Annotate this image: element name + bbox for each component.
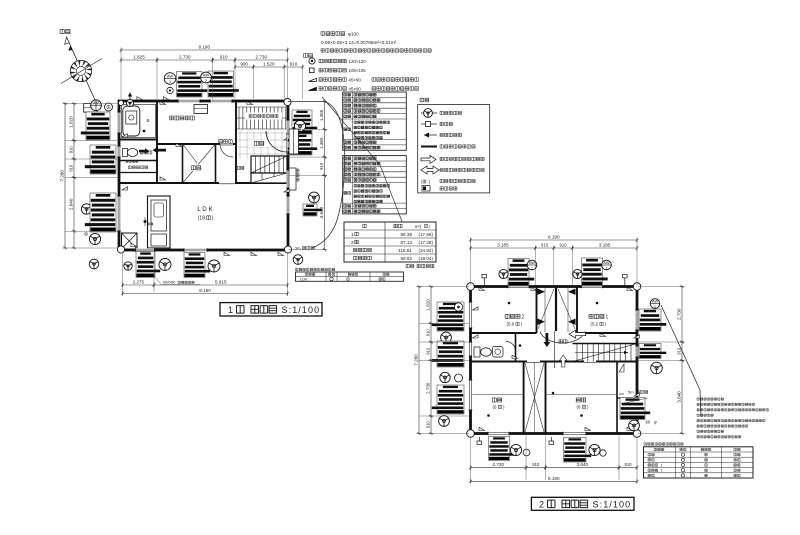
floor1 dim top overall 8.190 — [120, 45, 289, 53]
fire row kodomo1 — [648, 463, 740, 467]
floor2 corridor door arch — [540, 332, 585, 343]
floor1 right fan bottom-corner — [293, 255, 303, 265]
svg-text:(34.94): (34.94) — [418, 248, 433, 253]
floor2 dim right segments — [676, 285, 684, 343]
floor2 corridor down arrow — [544, 333, 551, 347]
floor1 window bottom 2 — [184, 248, 207, 252]
floor1 brace markers — [122, 101, 290, 255]
svg-text:AW: AW — [93, 101, 99, 105]
floor1 left tag stack C — [85, 193, 116, 232]
floor1 corner post top-right — [284, 98, 291, 105]
area table row building area — [354, 256, 434, 261]
floor2 shelf line right room — [546, 394, 618, 396]
svg-text:2.640: 2.640 — [68, 198, 73, 210]
fire row shinshitsu — [648, 453, 740, 456]
floor1 dim top row3 — [234, 62, 255, 70]
fire row kodomo2 — [648, 469, 740, 473]
svg-text:910: 910 — [532, 462, 540, 467]
floor2 top tag stack 1 — [508, 259, 534, 287]
svg-text:45×90: 45×90 — [349, 77, 362, 82]
svg-text:8.190: 8.190 — [548, 235, 560, 240]
floor2 corridor top wall right — [577, 332, 637, 334]
fire row roka — [648, 474, 740, 477]
svg-text:2.730: 2.730 — [676, 308, 681, 320]
floor1 small circle yu — [105, 103, 113, 111]
floor2 right fan mid — [651, 362, 663, 374]
svg-text:φ100: φ100 — [348, 31, 359, 36]
floor1 tri marker above top wall 1 — [137, 97, 143, 100]
floor1 right tag stack top — [292, 110, 317, 134]
floor2 stairs — [573, 344, 638, 362]
floor1 washer box — [122, 233, 138, 249]
svg-text:(6: (6 — [493, 405, 497, 410]
fire row yoshitsu — [648, 458, 740, 461]
floor2 corridor arrow — [569, 330, 586, 338]
svg-text:910: 910 — [676, 347, 681, 355]
floor1 bottom tag stack 2 — [184, 253, 210, 278]
svg-text:2: 2 — [539, 499, 544, 509]
floor2 door gap mid wall 1 — [527, 360, 540, 364]
floor2 window right 2 — [635, 346, 638, 357]
north arrow line — [67, 37, 96, 100]
floor1 entrance porch step — [289, 129, 299, 154]
svg-text:B: B — [147, 118, 150, 123]
floor1 wall hall-entrance — [235, 101, 237, 183]
svg-text:8.190: 8.190 — [548, 476, 560, 481]
leader line to tables — [322, 97, 409, 254]
svg-text:3.640: 3.640 — [577, 462, 589, 467]
floor1 washroom label senmen-datsuiishitsu — [170, 116, 195, 120]
floor2 bottom inlet symbol 2 — [549, 441, 554, 444]
svg-text:(5.2: (5.2 — [591, 322, 599, 327]
svg-text:910: 910 — [425, 329, 430, 337]
svg-text:7.280: 7.280 — [59, 170, 64, 182]
floor1 fan above window1 — [164, 73, 176, 85]
floor1 pantry note — [126, 160, 138, 162]
floor2 top tag stack 2 — [582, 258, 608, 286]
floor1 right fan top — [294, 120, 305, 131]
floor1 dim left segments — [68, 102, 76, 142]
vent legend always row — [422, 186, 430, 192]
floor1 window right kitchen-side — [286, 120, 290, 134]
vent spec table floor1 — [343, 92, 407, 150]
floor1 left small circles B — [81, 204, 91, 214]
floor2 door gap mid wall 2 — [584, 360, 596, 364]
floor1 shoes closet label — [245, 113, 282, 120]
legend item toshi-bashira — [309, 58, 315, 64]
floor2 dim bottom extension lines — [471, 436, 638, 481]
svg-text:59.62: 59.62 — [401, 256, 413, 261]
floor1 bath shower dot — [143, 130, 146, 133]
svg-text:AW: AW — [603, 260, 610, 265]
floor1 right stack mid — [287, 134, 317, 155]
svg-text:φ: φ — [654, 420, 657, 425]
floor1 window bottom 1 — [136, 248, 155, 252]
floor1 bottom fan 1 — [159, 259, 171, 271]
fire alarm table floor2 — [644, 447, 754, 478]
floor2 window right 1 — [635, 310, 639, 330]
floor1 right fan lower — [309, 192, 320, 203]
floor2 dim top extension lines — [471, 240, 638, 285]
compass cross line — [61, 59, 102, 84]
floor1 kitchen dot — [144, 220, 147, 223]
svg-text:58.38: 58.38 — [401, 232, 413, 237]
floor1 bottom small fan left — [124, 262, 132, 270]
floor2 window left 2 — [469, 342, 472, 356]
floor2 left fan 1 — [441, 332, 452, 343]
floor1 hall door arc — [220, 144, 233, 157]
floor1 toilet label — [140, 151, 152, 154]
floor2 corner posts — [467, 283, 475, 291]
floor1 toilet fixture — [123, 149, 128, 157]
floor2 shelf line left room — [472, 394, 524, 396]
svg-text:1: 1 — [228, 305, 233, 315]
floor2 room label yoshitsu6 — [492, 398, 502, 402]
svg-text:5.915: 5.915 — [215, 280, 227, 285]
svg-text:910: 910 — [220, 55, 228, 60]
floor1 katteguchi step — [289, 168, 296, 190]
floor2 dim bottom segments — [469, 462, 527, 470]
floor2 dim left overall 7.280 — [413, 285, 421, 435]
svg-text:S:1/100: S:1/100 — [593, 499, 632, 509]
area table header — [363, 224, 367, 228]
floor1 wall pantry bottom — [119, 172, 157, 174]
floor1 tag stack top 2 — [208, 71, 239, 97]
floor2 right tag stack 2 — [639, 344, 666, 359]
floor2 brace markers — [473, 287, 640, 430]
floor1 wall washroom bottom — [157, 143, 236, 145]
floor1 outer walls — [119, 101, 288, 250]
floor1 fan above window2 — [201, 72, 212, 83]
legend title hanrei — [304, 54, 313, 58]
floor2 outer walls — [471, 287, 638, 434]
floor1 closet monoire walls — [182, 144, 184, 183]
floor1 corner post bottom-right — [284, 246, 291, 253]
floor1 washroom arrow — [153, 147, 167, 154]
floor2 stairs top wall — [573, 343, 638, 345]
svg-text:910: 910 — [425, 347, 430, 355]
floor2 left fan 2 — [440, 372, 450, 382]
floor2 right tag stack 3 — [620, 398, 650, 420]
svg-text:L D K: L D K — [197, 206, 213, 213]
svg-text:60: 60 — [646, 420, 651, 425]
floor1 bottom fan 2 — [208, 260, 220, 272]
svg-text:m²(: m²( — [415, 224, 422, 229]
floor2 top AW circle 2 — [602, 260, 612, 271]
area table row total floor area — [354, 248, 434, 253]
svg-text:AW: AW — [529, 260, 536, 265]
svg-text:5m: 5m — [628, 390, 634, 395]
svg-text:3.185: 3.185 — [497, 243, 509, 248]
floor2 corridor top wall left — [471, 332, 537, 334]
floor1 window left bath — [117, 112, 121, 133]
floor1 dim bottom row1 — [121, 280, 155, 288]
floor1 wall bath-washroom — [156, 101, 158, 183]
floor2 bottom inlet symbol 1 — [477, 441, 482, 444]
svg-text:910: 910 — [560, 243, 568, 248]
legend item kuda-bashira — [310, 68, 315, 73]
floor2 window top 1 — [508, 285, 529, 289]
svg-text:910: 910 — [68, 164, 73, 172]
floor1 water heater — [84, 104, 97, 113]
svg-text:2.730: 2.730 — [493, 462, 505, 467]
floor1 dim right segments — [319, 100, 327, 131]
floor1 wall toilet bottom — [119, 160, 157, 162]
floor2 dim top overall 8.190 — [469, 235, 638, 243]
svg-text:7.280: 7.280 — [413, 354, 418, 366]
floor2 left tag stack 1 — [432, 302, 464, 331]
compass rose — [70, 60, 91, 81]
floor2 right closet door marks — [619, 364, 624, 372]
floor1 dim top row2 — [120, 55, 159, 63]
floor1 door gap hall-LDK — [219, 181, 235, 185]
floor2 closet strip bottom walls — [523, 362, 525, 434]
floor1 closet monoire label — [186, 165, 206, 172]
floor1 bottom tag stack 1 — [136, 252, 160, 278]
north arrowhead — [65, 37, 70, 44]
floor1 toilet arrow — [139, 148, 149, 154]
floor1 right stack lower — [303, 204, 322, 216]
fire alarm table floor1 — [296, 272, 404, 281]
legend item sujikai double — [309, 87, 317, 90]
legend item sujikai single — [309, 78, 317, 81]
floor2 left tag stack 2 — [432, 341, 464, 367]
floor2 closet brace triangles — [538, 289, 546, 295]
floor1 wall LDK top — [119, 182, 288, 184]
svg-text:3.640: 3.640 — [676, 391, 681, 403]
floor1 entrance label genkan — [248, 140, 270, 147]
note SUS hood — [321, 49, 431, 52]
floor2 window bottom 2 — [563, 432, 586, 436]
svg-text:2.275: 2.275 — [133, 280, 145, 285]
floor1 closet monoire diagonal — [184, 145, 215, 182]
floor1 window right LDK — [286, 196, 290, 214]
floor2 room label yoshitsu8 — [576, 398, 585, 402]
area table row 2F area — [351, 240, 433, 245]
svg-text:2.730: 2.730 — [256, 55, 268, 60]
floor2 fire line — [661, 305, 701, 417]
vent legend title — [420, 98, 429, 102]
svg-text:1: 1 — [606, 314, 609, 320]
svg-text:120×120: 120×120 — [349, 59, 367, 64]
svg-text:(18: (18 — [198, 216, 205, 222]
floor2 bottom fans 2 — [589, 444, 600, 455]
svg-text:910: 910 — [541, 243, 549, 248]
floor2 top inlet symbol 2 — [623, 275, 628, 278]
vent legend duct row — [421, 146, 437, 148]
svg-text:8.190: 8.190 — [199, 45, 211, 50]
svg-text:1.520: 1.520 — [263, 62, 275, 67]
floor1 bottom small fan far-left — [89, 259, 99, 269]
svg-text:AW: AW — [167, 73, 174, 78]
floor2 room dots — [487, 414, 490, 417]
floor2 dim left extension lines — [419, 287, 469, 434]
svg-text:1.365: 1.365 — [319, 137, 324, 149]
floor2 corridor label — [559, 340, 567, 344]
title box floor1 — [220, 303, 322, 316]
floor2 left small circle 1 — [454, 303, 462, 311]
floor1 fan top-left — [91, 100, 102, 111]
floor2 room label kodomo1 — [589, 314, 604, 318]
svg-text:2: 2 — [351, 240, 354, 245]
balcony notes block — [697, 398, 768, 438]
vent spec table floor2 — [343, 156, 407, 214]
svg-text:(17.66): (17.66) — [418, 232, 433, 237]
floor2 window left 3 — [469, 380, 473, 410]
floor2 top fan 2 — [573, 269, 582, 278]
floor2 right closet wall — [616, 362, 618, 434]
fire alarm table floor1 title — [296, 268, 335, 271]
vent legend box — [418, 105, 490, 193]
floor1 door gap washroom-hall — [220, 142, 233, 146]
floor1 corner post bottom-left — [117, 246, 124, 253]
svg-text:(5.8: (5.8 — [507, 322, 515, 327]
floor2 window bottom 1 — [488, 432, 509, 436]
floor1 dim top extension lines — [121, 50, 303, 99]
floor2 dim top segments — [469, 243, 537, 251]
svg-text:45×90: 45×90 — [349, 86, 362, 91]
svg-text:910: 910 — [319, 162, 324, 170]
floor1 bath unit tub — [122, 105, 156, 138]
svg-text:AW: AW — [203, 72, 210, 77]
floor2 dim bottom overall 8.190 — [469, 476, 638, 484]
floor2 small up arrow — [560, 355, 567, 367]
floor2 bottom tag stack 1 — [489, 437, 515, 461]
svg-text:105×105: 105×105 — [349, 68, 367, 73]
svg-text:(17.28): (17.28) — [418, 240, 433, 245]
floor2 window right 3 — [635, 402, 638, 420]
floor2 top fan 1 — [499, 269, 508, 278]
floor2 dim right extension lines — [638, 287, 682, 434]
floor2 left small circle 2 — [455, 374, 463, 382]
svg-text:900: 900 — [240, 62, 248, 67]
svg-text:1: 1 — [661, 463, 663, 467]
floor2 dim left segments — [425, 285, 433, 325]
svg-text:910: 910 — [68, 146, 73, 154]
svg-text:1.825: 1.825 — [133, 55, 145, 60]
floor1 katteguchi label vertical — [296, 169, 299, 181]
svg-text:1.365: 1.365 — [319, 109, 324, 121]
floor1 hall label — [219, 140, 233, 144]
svg-text:(8: (8 — [577, 405, 581, 410]
floor1 door right katteguchi — [286, 170, 289, 188]
floor1 hood symbol above bath — [129, 93, 131, 101]
floor2 toilet door arc — [506, 342, 516, 352]
floor2 bottom tag stack 2 — [564, 438, 592, 463]
floor2 closet strip top hatch — [538, 288, 575, 333]
floor2 right AW circle — [650, 298, 660, 309]
floor1 kitchen counter — [148, 196, 171, 248]
floor1 left tag stack A — [81, 112, 110, 140]
floor1 entrance tile hatch — [238, 131, 287, 159]
svg-text:910: 910 — [425, 421, 430, 429]
svg-text:0.05×0.05×3.14=0.00785m²<0.01m: 0.05×0.05×3.14=0.00785m²<0.01m² — [321, 40, 397, 45]
floor2 right fan bottom — [629, 420, 640, 431]
svg-text:115.51: 115.51 — [398, 248, 412, 253]
floor1 window top 1 — [178, 99, 200, 103]
svg-text:1.820: 1.820 — [425, 299, 430, 311]
floor1 tri marker above top wall 2 — [164, 97, 170, 100]
floor2 bottom fans 1 — [510, 444, 521, 455]
floor1 shoes closet hatch — [237, 107, 287, 129]
compass label 真北 — [60, 29, 70, 33]
vent legend hood row — [424, 134, 437, 136]
svg-text:AW: AW — [652, 298, 659, 303]
svg-text:(18.04): (18.04) — [418, 256, 433, 261]
svg-text:3.185: 3.185 — [599, 243, 611, 248]
fire alarm table floor2 title — [644, 443, 683, 446]
svg-text:2.730: 2.730 — [179, 55, 191, 60]
svg-text:S:1/100: S:1/100 — [282, 305, 321, 315]
vent legend inlet row — [421, 123, 437, 125]
floor2 room label kodomo2 — [505, 314, 520, 318]
floor1 dim bottom extension lines — [123, 252, 288, 292]
svg-text:2: 2 — [522, 314, 525, 320]
svg-text:LDK: LDK — [300, 277, 308, 281]
floor2 closet center post — [555, 287, 557, 332]
vent legend door vent both row — [421, 166, 439, 174]
floor2 wash basin — [493, 347, 504, 358]
svg-text:8.190: 8.190 — [199, 288, 211, 293]
area table row 1F area — [351, 232, 433, 237]
floor2 left tag stack 3 — [432, 385, 464, 414]
floor1 dim left overall 7.280 — [59, 102, 67, 249]
area table — [344, 222, 436, 262]
floor2 window top 2 — [582, 285, 603, 289]
floor1 washroom fixture — [194, 105, 208, 114]
floor1 3m fire line curve — [288, 102, 345, 249]
svg-text:1.820: 1.820 — [68, 116, 73, 128]
floor2 right tag stack 1 — [639, 309, 666, 331]
floor1 dim bottom overall 8.190 — [121, 288, 289, 296]
floor1 stair closet label — [236, 166, 244, 169]
floor1 wall bath bottom — [119, 139, 157, 141]
floor1 window top 2 — [210, 99, 232, 103]
floor1 left tag stack B — [85, 145, 116, 174]
floor2 left fan 3 — [439, 416, 450, 427]
floor2 closet strip top walls — [536, 287, 538, 334]
floor2 top AW circle 1 — [527, 260, 537, 271]
floor2 window left 1 — [469, 302, 473, 328]
floor1 small circle below fan1 — [167, 87, 173, 93]
floor1 dim left extension lines — [65, 104, 118, 249]
title box floor2 — [531, 497, 634, 510]
svg-text:910: 910 — [625, 462, 633, 467]
svg-text:57.13: 57.13 — [401, 240, 413, 245]
floor1 corner post top-left — [118, 100, 123, 105]
svg-text:3.640: 3.640 — [319, 206, 324, 218]
svg-text:910: 910 — [290, 62, 298, 67]
floor2 balcony leader — [620, 398, 648, 404]
floor1 stairs lower winders — [251, 173, 287, 183]
svg-text:2.730: 2.730 — [425, 382, 430, 394]
svg-text:1: 1 — [351, 232, 354, 237]
floor1 pantry label — [128, 166, 147, 169]
floor2 top inlet symbol 1 — [482, 275, 487, 278]
rounding note marume — [406, 264, 414, 267]
floor1 window left toilet — [117, 146, 121, 157]
floor1 LDK label — [0, 0, 1, 1]
vent legend door vent row — [421, 155, 436, 163]
floor2 toilet wall — [515, 333, 517, 362]
floor2 closet strip bottom hatch — [525, 363, 544, 432]
note kyu-haiki phi100 — [321, 32, 345, 36]
floor1 entrance door arc — [266, 131, 287, 152]
svg-text:2: 2 — [661, 469, 663, 473]
vent legend fan row — [421, 112, 437, 114]
floor2 toilet fixture — [474, 347, 480, 357]
floor2 mid wall — [471, 361, 638, 363]
